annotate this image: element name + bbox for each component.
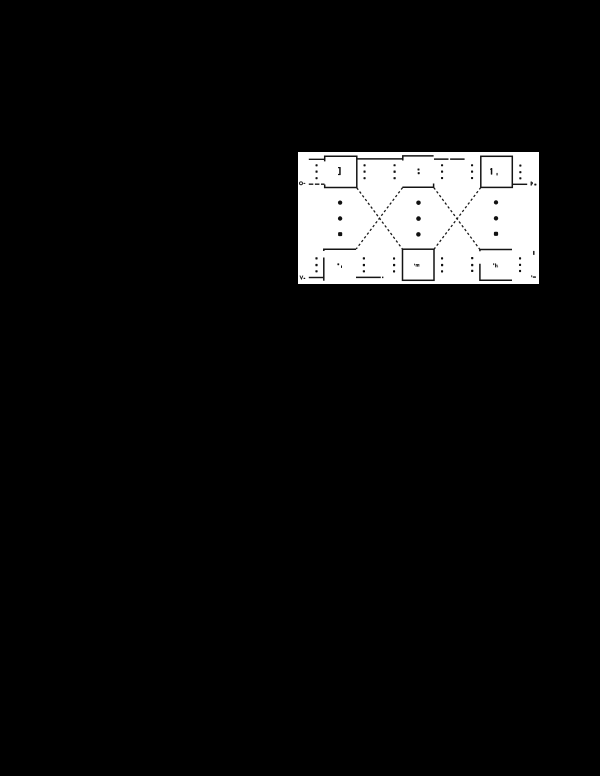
label inside B6: tick and k — [493, 263, 494, 265]
small dots right of B6 — [519, 257, 521, 259]
wire B1 to B2 — [357, 158, 403, 160]
label inside B5: m-like mark — [413, 264, 416, 266]
output label P2 — [531, 182, 532, 186]
small dots left of B6 — [471, 257, 473, 259]
small dots left of B3 — [471, 164, 473, 166]
wire B3 output — [512, 183, 527, 185]
diagonal B2 to B6 — [434, 188, 480, 250]
label inside B3: 1 with comma — [491, 168, 493, 175]
right tick label — [533, 251, 534, 255]
small dots right of B4 — [363, 257, 365, 259]
label inside B1: ]-like mark — [339, 167, 341, 175]
small dots right of B5 — [441, 257, 443, 259]
input label v1 — [300, 276, 303, 279]
figure: multistage interconnection network diagram (scanned) — [298, 152, 539, 284]
input label 0 with dash — [300, 182, 303, 185]
small dots left of B5 — [393, 257, 395, 259]
label inside B2: colon-like mark — [418, 169, 420, 171]
diagonal B3 to B5 — [434, 188, 481, 250]
big ellipsis dots column 2 — [416, 200, 421, 205]
small dots right of B3 — [519, 165, 521, 167]
small dots right of B2 — [441, 164, 443, 166]
diagonal B2 to B4 — [356, 188, 402, 249]
wire B2 to B3 (faded) — [434, 158, 465, 160]
box stage 2 bottom (B5) — [403, 249, 435, 280]
wire input top — [309, 158, 325, 160]
box stage 3 top (B3) — [481, 156, 513, 187]
wire input bottom — [309, 277, 324, 279]
output label vN — [530, 275, 533, 277]
diagonal B1 to B5 — [357, 188, 403, 249]
wire B4 right (faded) — [356, 276, 384, 278]
small dots right of B1 — [364, 164, 366, 166]
box stage 2 top (B2) — [403, 156, 434, 161]
box stage 3 bottom (B6) — [480, 250, 512, 252]
big ellipsis dots column 3 — [494, 200, 498, 204]
wire input lower (dashed) — [309, 183, 325, 185]
box stage 1 bottom (B4) — [324, 249, 356, 251]
small dots left of B1 — [316, 164, 318, 166]
small dots left of B4 — [315, 257, 317, 259]
label inside B4: dot and comma — [337, 263, 339, 265]
white figure background — [298, 152, 539, 284]
small dots left of B2 — [394, 164, 396, 166]
big ellipsis dots column 1 — [338, 200, 342, 204]
box stage 1 top (B1) — [325, 156, 357, 187]
